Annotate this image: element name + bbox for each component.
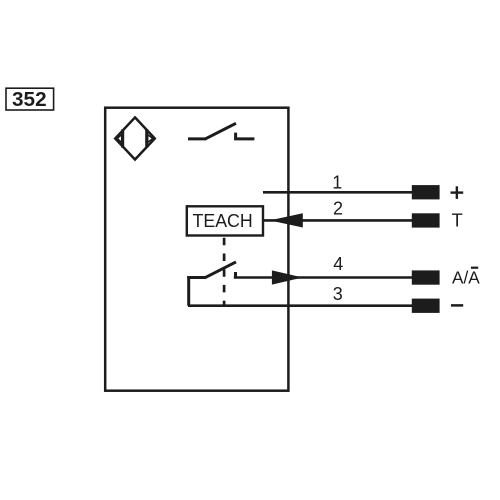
sensor body outline xyxy=(105,108,288,391)
wire 4 xyxy=(234,276,414,279)
svg-text:A/A: A/A xyxy=(452,268,480,288)
wire 1 xyxy=(263,191,414,194)
frame label box 352 xyxy=(6,88,54,111)
arrowhead output xyxy=(272,270,303,284)
wire from S2 down to wire 3 xyxy=(187,276,190,306)
label + xyxy=(451,186,464,199)
svg-text:T: T xyxy=(452,209,463,230)
right chord xyxy=(145,129,148,148)
S1 fixed contact xyxy=(236,133,255,139)
svg-text:TEACH: TEACH xyxy=(193,211,253,231)
teach link wire (dashed) xyxy=(223,238,226,307)
diamond xyxy=(115,117,155,159)
terminal A/A xyxy=(412,270,440,284)
right emitter triangle xyxy=(148,135,153,143)
svg-text:352: 352 xyxy=(12,89,47,111)
svg-text:3: 3 xyxy=(333,284,343,304)
wire 2 xyxy=(264,219,414,222)
S2 lever xyxy=(205,262,237,278)
teach switch S2 xyxy=(187,262,236,278)
arrowhead into TEACH xyxy=(270,213,303,227)
svg-text:2: 2 xyxy=(333,198,343,218)
left emitter triangle xyxy=(117,135,122,143)
S2 lead-in wire xyxy=(187,276,205,279)
S2 fixed contact xyxy=(234,272,237,278)
terminal T xyxy=(412,213,440,227)
left chord xyxy=(121,129,124,148)
wire 3 xyxy=(188,304,414,307)
label minus xyxy=(451,304,463,307)
svg-text:1: 1 xyxy=(332,172,342,192)
macron over second A xyxy=(471,267,478,269)
terminal + xyxy=(412,185,440,199)
S1 lever xyxy=(205,123,237,139)
svg-text:4: 4 xyxy=(333,254,343,274)
S1 lead-in wire xyxy=(188,137,206,140)
proximity sensor symbol U1 xyxy=(115,117,155,159)
TEACH box xyxy=(187,206,263,235)
terminal minus xyxy=(412,299,440,313)
output switch S1 xyxy=(188,123,254,139)
